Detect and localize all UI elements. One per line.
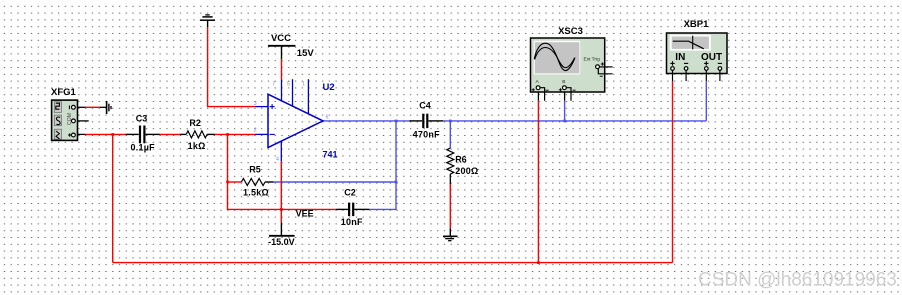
wire XFG1 minus terminal to ground: [75, 106, 106, 108]
svg-text:7: 7: [272, 82, 275, 88]
wire scope B probe: [564, 90, 566, 121]
wire node to C2: [228, 208, 337, 210]
wire ground to non-inverting input: [208, 20, 268, 106]
svg-text:XBP1: XBP1: [684, 19, 710, 30]
junction bottom bus scope A: [537, 261, 540, 264]
wire R5 to feedback vertical: [274, 181, 397, 183]
resistor R6: [447, 121, 479, 236]
svg-text:XSC3: XSC3: [558, 26, 583, 37]
svg-text:VEE: VEE: [296, 208, 314, 218]
svg-text:C4: C4: [419, 101, 431, 111]
svg-text:U2: U2: [323, 82, 335, 93]
svg-text:4: 4: [276, 157, 279, 163]
svg-text:VCC: VCC: [271, 33, 291, 44]
svg-text:C3: C3: [136, 113, 148, 123]
wire pin7 VCC: [281, 46, 283, 101]
junction scope B tap: [563, 120, 566, 123]
svg-text:B: B: [562, 79, 565, 85]
op-amp U2 741: [254, 79, 338, 162]
junction feedback top: [395, 120, 398, 123]
svg-text:1: 1: [302, 82, 305, 88]
svg-text:IN: IN: [675, 52, 685, 63]
svg-text:R5: R5: [249, 164, 261, 174]
wire R2 to op-amp inverting input: [215, 133, 255, 135]
wire XFG1 plus to C3: [75, 133, 126, 135]
function generator XFG1: [51, 87, 78, 140]
ground GND1 (rotated, at XFG1): [107, 101, 111, 114]
svg-text:3: 3: [254, 101, 257, 107]
svg-text:10nF: 10nF: [341, 217, 363, 227]
bode plotter XBP1: [667, 19, 728, 81]
resistor R2: [180, 118, 215, 151]
oscilloscope XSC3: [531, 26, 613, 101]
capacitor C3: [126, 113, 160, 152]
VEE supply: [268, 208, 313, 247]
junction inverting node: [226, 133, 229, 136]
wire feedback vertical: [395, 121, 397, 210]
junction feedback R5: [395, 181, 398, 184]
wire scope A probe: [537, 90, 539, 263]
wire C2 to feedback vertical: [369, 208, 396, 210]
junction R6 tap: [449, 120, 452, 123]
wire bottom feedback bus: [113, 262, 673, 264]
svg-text:OUT: OUT: [701, 52, 722, 63]
svg-text:1kΩ: 1kΩ: [188, 141, 206, 151]
wire left vertical drop: [112, 134, 114, 262]
svg-text:Ext Trig: Ext Trig: [584, 57, 601, 63]
svg-text:C2: C2: [344, 187, 356, 197]
VCC supply: [268, 33, 314, 59]
svg-text:R6: R6: [455, 155, 467, 165]
svg-text:0.1µF: 0.1µF: [130, 142, 155, 152]
svg-text:15V: 15V: [297, 48, 315, 59]
svg-text:741: 741: [323, 149, 338, 159]
svg-text:200Ω: 200Ω: [455, 166, 478, 176]
wire node to R5: [228, 181, 242, 183]
wire op-amp output bus: [323, 120, 409, 122]
wire inverting node vertical: [227, 134, 229, 210]
svg-text:470nF: 470nF: [413, 129, 441, 139]
resistor R5: [241, 164, 273, 197]
ground GND2 (top, flipped): [200, 15, 215, 20]
wire bode OUT+ probe: [705, 81, 707, 121]
junction node at XFG1 output: [111, 133, 114, 136]
capacitor C4: [409, 101, 443, 140]
svg-text:2: 2: [254, 128, 257, 134]
wire pin4 to VEE rail: [280, 141, 282, 222]
svg-text:XFG1: XFG1: [51, 87, 77, 98]
wire bode IN+ probe: [672, 81, 674, 263]
wire pin2 stub: [255, 133, 268, 135]
junction VEE tap: [280, 208, 283, 211]
junction R5 tap: [226, 181, 229, 184]
svg-text:CSDN @lh8610919963: CSDN @lh8610919963: [698, 270, 897, 291]
ground GND3 (below R6): [443, 236, 458, 240]
svg-text:1.5kΩ: 1.5kΩ: [243, 187, 269, 197]
svg-text:R2: R2: [189, 118, 201, 128]
svg-text:5: 5: [287, 82, 290, 88]
wire XFG1 COM stub: [75, 120, 89, 122]
svg-text:-15.0V: -15.0V: [268, 237, 295, 247]
wire C3 to R2: [160, 133, 180, 135]
capacitor C2: [336, 187, 369, 227]
svg-text:6: 6: [326, 115, 329, 121]
